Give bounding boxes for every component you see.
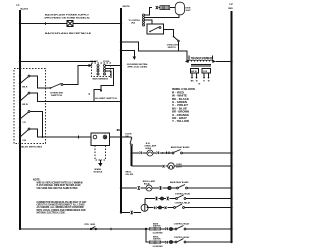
- svg-text:BR-W: BR-W: [22, 104, 28, 106]
- svg-text:RED: RED: [228, 8, 233, 10]
- backsplash receptacle label: [45, 32, 92, 35]
- wire capsule return: [145, 15, 179, 18]
- wire hi-limit bracket to white bus: [94, 90, 121, 102]
- connector P2 pins: [143, 14, 145, 26]
- svg-text:WHITE: WHITE: [123, 6, 131, 8]
- oven lamp label: [144, 145, 157, 151]
- junction L2 row A: [230, 152, 232, 154]
- svg-text:BAKE RELAY BOARD: BAKE RELAY BOARD: [170, 181, 189, 184]
- svg-text:(PER LOCAL CODES): (PER LOCAL CODES): [128, 66, 148, 69]
- junction L2 row D: [230, 197, 232, 199]
- svg-text:W: W: [208, 81, 210, 83]
- svg-text:LIGHT: LIGHT: [176, 166, 183, 168]
- svg-text:Y - YELLOW: Y - YELLOW: [172, 119, 190, 123]
- transformer: [185, 56, 216, 67]
- relay contact (bake ignitor): [175, 226, 231, 230]
- wire P1 pin3 stub: [106, 71, 112, 78]
- switch oven (manual): [50, 66, 89, 97]
- ground label: [94, 168, 103, 174]
- svg-text:BK W R: BK W R: [91, 61, 99, 63]
- svg-text:USE SAME SIZE AND THE SAME RAT: USE SAME SIZE AND THE SAME RATING: [37, 187, 78, 190]
- svg-text:GROUNDED NEUTRAL: GROUNDED NEUTRAL: [127, 63, 149, 66]
- svg-text:(PROVIDED ON SOME MODELS): (PROVIDED ON SOME MODELS): [45, 18, 90, 20]
- oven light capsule: [175, 2, 184, 15]
- connector P1 top labels: [91, 61, 110, 63]
- node L2 label: [228, 2, 233, 10]
- switch S1 (valve): [19, 74, 50, 88]
- row B to L2: [174, 165, 232, 167]
- lamp oven light (row B): [168, 163, 174, 169]
- junction white bus hi-limit: [120, 100, 122, 102]
- switch door (lower): [130, 137, 150, 146]
- node WHITE label: [123, 6, 131, 8]
- svg-text:IGNITOR: IGNITOR: [153, 239, 161, 241]
- svg-text:BK-R: BK-R: [22, 86, 28, 88]
- junction L2 row B: [230, 165, 232, 167]
- backsplash receptacle box: [67, 21, 73, 27]
- svg-text:V-W: V-W: [22, 140, 26, 142]
- switch on bottom run: [85, 224, 97, 230]
- svg-text:GLOW BAR: GLOW BAR: [153, 232, 164, 235]
- tick on backsplash line: [45, 22, 47, 25]
- ground lead: [100, 160, 102, 163]
- oven light label: [185, 8, 192, 13]
- wire plug box to white bus: [110, 136, 122, 138]
- node L1 label: [17, 3, 29, 10]
- wire L1 bottom run: [20, 228, 146, 230]
- svg-text:BK W: BK W: [191, 71, 196, 73]
- svg-text:W: W: [198, 83, 200, 85]
- switch S2 (valve): [19, 91, 94, 106]
- valve switch box (dashed): [14, 69, 46, 144]
- relay contact (row A): [172, 150, 231, 154]
- svg-text:BULB: BULB: [146, 148, 152, 150]
- broil ignitor labels: [153, 237, 161, 241]
- junction L1 tap: [19, 60, 21, 62]
- row E: control relay circuit: [148, 206, 174, 209]
- oven light switch box: [147, 24, 164, 34]
- svg-text:SWITCH: SWITCH: [168, 47, 176, 49]
- row A: oven lamp circuit: [132, 152, 148, 155]
- connector P1 (dashed box): [92, 63, 111, 77]
- row C: broil lamp circuit: [120, 187, 146, 190]
- row C continues: [152, 186, 177, 189]
- svg-text:(P2): (P2): [131, 23, 135, 25]
- wire P1 pin1 to white bus: [106, 65, 122, 67]
- junction white-backsplash: [120, 22, 122, 24]
- junction L2 row C: [230, 187, 232, 189]
- wire backsplash supply line: [20, 23, 121, 25]
- transformer secondary block A: [190, 68, 198, 73]
- junction L1 bottom corner: [19, 228, 21, 230]
- svg-text:GLOW BAR: GLOW BAR: [153, 245, 164, 248]
- svg-text:MODULE: MODULE: [94, 172, 103, 174]
- wire switch box to door switch: [164, 30, 174, 37]
- svg-text:SW.: SW.: [125, 136, 129, 138]
- switch (door, upper): [167, 36, 180, 51]
- wire white bus to door switch leg: [121, 136, 132, 138]
- oven light label (row B): [176, 164, 183, 169]
- broil switch label: [126, 172, 134, 176]
- svg-text:NATIONAL ELECTRICAL CODE.: NATIONAL ELECTRICAL CODE.: [37, 211, 66, 214]
- junction row A tap: [130, 152, 132, 154]
- svg-text:CONTROL RELAY: CONTROL RELAY: [174, 236, 190, 239]
- svg-text:SWITCH: SWITCH: [51, 95, 63, 97]
- svg-text:W: W: [196, 81, 198, 83]
- connector P1 pins: [97, 65, 106, 76]
- notes paragraph 2: [37, 201, 87, 214]
- wire element to oven light: [170, 7, 176, 9]
- junction white bus neutral: [120, 49, 122, 51]
- ground arrow: [98, 163, 103, 167]
- wire L1 to connector P1: [20, 61, 96, 63]
- svg-text:CONTROL RELAY: CONTROL RELAY: [174, 223, 190, 226]
- svg-text:R W: R W: [203, 71, 207, 73]
- junction L2 broil ignitor: [230, 241, 232, 243]
- junction L2 transformer: [230, 60, 232, 62]
- wire door switch bus: [131, 146, 133, 166]
- junction white bus plug: [120, 136, 122, 138]
- svg-text:BACKSPLASH POWER SUPPLY: BACKSPLASH POWER SUPPLY: [45, 14, 90, 17]
- svg-text:MAIN HARNESS: MAIN HARNESS: [93, 78, 109, 81]
- bake ignitor element: [146, 227, 166, 235]
- svg-text:Y-R: Y-R: [22, 122, 26, 124]
- relay contact (row C): [177, 185, 232, 189]
- row D: control relay circuit: [145, 197, 176, 200]
- svg-text:TRANSFORMER: TRANSFORMER: [191, 56, 213, 60]
- door switch label: [125, 134, 132, 138]
- grounded neutral branch: [121, 51, 135, 57]
- tick on bottom run: [110, 228, 112, 230]
- svg-text:IGN. SW.: IGN. SW.: [126, 174, 134, 176]
- svg-text:BULB: BULB: [144, 183, 150, 185]
- broil ignitor connectors: [166, 241, 176, 244]
- svg-text:LIGHT: LIGHT: [185, 10, 192, 12]
- arrow into connector P1: [89, 64, 93, 67]
- transformer secondary block B: [202, 68, 210, 73]
- junction white bus pin1: [120, 64, 122, 66]
- wire P2 pin1 to lamp chain: [145, 8, 153, 16]
- wire P1 pin2 to hi-limit: [101, 69, 114, 91]
- svg-text:BACKSPLASH RECEPTACLE: BACKSPLASH RECEPTACLE: [45, 32, 92, 35]
- wire white bus to transformer feed: [121, 42, 187, 62]
- grounded neutral arrow: [133, 57, 137, 61]
- wire ignitor branch drop: [146, 229, 150, 242]
- wire color legend: [172, 87, 195, 123]
- plug box dashed leads: [95, 146, 106, 161]
- bake ignitor labels: [153, 222, 161, 227]
- svg-text:CONTROL RELAY: CONTROL RELAY: [175, 202, 191, 205]
- junction ignitor split: [145, 228, 147, 230]
- backsplash power supply label: [45, 14, 90, 20]
- tap stub on white bus: [117, 129, 121, 131]
- row A continues: [153, 152, 172, 155]
- wire P2 pin3 to light switch box: [145, 20, 153, 24]
- junction L2 row E: [230, 206, 232, 208]
- transformer output leads: [191, 73, 210, 85]
- lamp broil (row C): [146, 185, 152, 191]
- svg-text:HI-LIMIT SWITCH: HI-LIMIT SWITCH: [95, 98, 117, 100]
- relay contact (row E): [174, 204, 232, 208]
- junction white bus transformer feed: [120, 41, 122, 43]
- ignitor plug box: [91, 133, 110, 146]
- broil ignitor element: [150, 240, 166, 248]
- broil lamp label: [143, 180, 156, 186]
- bake ignitor connectors: [166, 228, 176, 231]
- wire L1 bus: [19, 10, 21, 229]
- tick left of hi-limit box: [88, 93, 90, 95]
- svg-text:BAKE RELAY BOARD: BAKE RELAY BOARD: [171, 146, 190, 149]
- switch S4 (valve): [19, 127, 91, 142]
- motor spark module: [141, 199, 148, 212]
- relay contact (broil ignitor): [175, 239, 231, 243]
- to control connector label: [129, 20, 141, 25]
- svg-text:CONTROL RELAY: CONTROL RELAY: [175, 193, 191, 196]
- junction S3/S4 merge: [42, 136, 44, 138]
- connector pair (lamp chain): [156, 6, 159, 9]
- wire L2 bus: [231, 11, 233, 242]
- relay contact (row D): [176, 195, 232, 199]
- wire neutral bus (white): [120, 8, 122, 213]
- striped element: [160, 6, 170, 10]
- connector tick on valve output wire: [78, 136, 80, 139]
- junction L2 bake ignitor: [230, 228, 232, 230]
- wire white bus bottom to module: [120, 211, 141, 214]
- svg-text:VALVE SWITCHES: VALVE SWITCHES: [20, 146, 43, 149]
- notes paragraph 1: [33, 178, 83, 189]
- wire transformer to L2: [216, 61, 232, 63]
- svg-text:PR. SW.: PR. SW.: [85, 224, 97, 226]
- grounded neutral label: [127, 63, 149, 69]
- node hi-limit terminal: [100, 90, 102, 92]
- row B: oven light: [132, 165, 168, 168]
- svg-text:BLACK: BLACK: [21, 7, 29, 10]
- lamp oven (row A): [147, 150, 153, 156]
- svg-text:GY BU: GY BU: [103, 61, 110, 63]
- svg-text:WIRE COLORS: WIRE COLORS: [172, 87, 195, 91]
- wire to element: [159, 7, 160, 9]
- switch S3 (valve): [19, 108, 43, 137]
- junction L1-backsplash: [19, 22, 21, 24]
